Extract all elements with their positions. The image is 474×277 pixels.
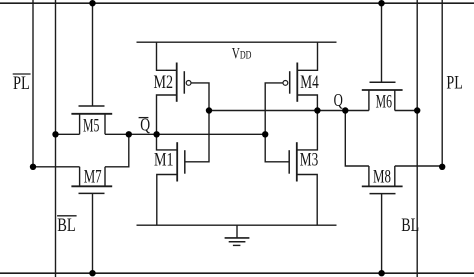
svg-text:M4: M4 [300, 71, 318, 93]
wire left inverter gate (M2 bubble to M1 gate) [185, 83, 209, 162]
wire WL (top word line) [0, 2, 474, 4]
transistor M5 gate bar [79, 105, 105, 107]
svg-text:VDD: VDD [232, 45, 252, 62]
transistor M4 channel bar [296, 63, 298, 102]
transistor M4 drain lead down to Q and M3 drain [297, 95, 318, 150]
overbar of BL-bar label [57, 215, 77, 217]
transistor M1 channel bar [176, 142, 178, 181]
transistor M3 source lead to ground [297, 175, 317, 226]
transistor M2 drain lead down to Q-bar and M1 drain [157, 95, 178, 150]
svg-text:M1: M1 [154, 148, 174, 170]
transistor M8 channel bar [362, 185, 403, 187]
junction dot M7 riser/Q-bar wire [126, 131, 132, 137]
wire Q-bar node (left segment from BL-bar to M5) [56, 133, 80, 135]
node PL line (right plate line) [441, 0, 443, 167]
junction dot M3-M4 drains/Q wire [314, 107, 320, 113]
transistor M6 gate lead [381, 3, 383, 82]
transistor M2 gate bubble [186, 81, 191, 86]
transistor M5 gate lead [92, 3, 94, 106]
node BL-bar line (left bit line) [55, 0, 57, 277]
transistor M6 gate bar [370, 81, 396, 83]
wire bottom control line [0, 272, 474, 274]
svg-text:BL: BL [57, 214, 75, 235]
junction dot right gates/Q-bar wire [262, 131, 268, 137]
transistor M4 gate bar [289, 71, 291, 94]
transistor M6 channel bar [362, 89, 403, 91]
ground symbol stem [236, 225, 238, 238]
transistor M8 left stub [368, 166, 370, 186]
transistor M7 channel bar [71, 185, 112, 187]
transistor M1 source lead to ground [157, 175, 177, 226]
junction dot bottom line/M7 gate [89, 270, 95, 276]
transistor M7 left wire to PL-bar [33, 166, 80, 168]
node BL line (right bit line) [416, 0, 418, 277]
overbar of Q-bar label [139, 117, 149, 119]
svg-text:Q: Q [140, 116, 150, 135]
transistor M4 source lead from VDD [297, 42, 317, 70]
transistor M2 source lead from VDD [157, 42, 177, 70]
transistor M8 left wire riser to Q [345, 111, 369, 167]
transistor M1 gate bar [184, 150, 186, 174]
transistor M8 right stub [394, 166, 396, 186]
transistor M7 gate bar [79, 192, 105, 194]
transistor M3 channel bar [296, 142, 298, 181]
transistor M8 right wire to PL [395, 165, 442, 167]
ground symbol bar 1 [225, 237, 250, 239]
wire Q-bar node (M5 to right gates) [105, 133, 265, 135]
svg-text:M8: M8 [373, 166, 391, 187]
svg-text:M5: M5 [83, 116, 99, 136]
transistor M7 gate lead [92, 193, 94, 273]
svg-text:PL: PL [13, 72, 30, 93]
transistor M5 channel bar [71, 113, 112, 115]
svg-text:PL: PL [446, 71, 462, 93]
overbar of PL-bar label [13, 73, 31, 75]
svg-text:M7: M7 [84, 166, 102, 187]
wire ground rail [137, 224, 337, 226]
node PL-bar line (left plate line) [32, 0, 34, 167]
ground symbol bar 3 [233, 244, 241, 246]
junction dot BL/Q wire [414, 107, 420, 113]
transistor M5 drain stub [104, 114, 106, 135]
transistor M8 gate lead [381, 194, 383, 274]
svg-text:BL: BL [401, 214, 419, 236]
transistor M8 gate bar [370, 193, 396, 195]
junction dot PL-bar end/M7 wire [30, 164, 36, 170]
junction dot PL end/M8 wire [439, 164, 445, 170]
junction dot left gates/Q wire [206, 107, 212, 113]
wire VDD rail [137, 41, 337, 43]
junction dot bottom line/M8 gate [378, 270, 384, 276]
junction dot WL/M5 gate [89, 0, 95, 6]
wire Q node (left gates to M6) [209, 110, 369, 112]
junction dot M8 riser/Q wire [342, 107, 348, 113]
wire right inverter gate (M4 bubble to M3 gate) [265, 83, 289, 162]
transistor M7 source stub [79, 167, 81, 187]
svg-text:M6: M6 [376, 92, 392, 112]
transistor M3 gate bar [288, 150, 290, 174]
transistor M2 gate bar [183, 71, 185, 94]
transistor M2 channel bar [176, 63, 178, 102]
transistor M7 right wire [105, 134, 129, 167]
ground symbol bar 2 [229, 241, 246, 243]
transistor M6 left stub [368, 90, 370, 111]
transistor M7 drain stub [104, 167, 106, 187]
svg-text:M3: M3 [300, 148, 318, 170]
junction dot BL-bar/Q-bar wire [52, 131, 58, 137]
transistor M5 source stub [79, 114, 81, 135]
transistor M6 right stub [394, 90, 396, 111]
wire Q node (M6 to BL) [395, 110, 417, 112]
transistor M4 gate bubble [283, 81, 288, 86]
svg-text:Q: Q [334, 91, 343, 110]
junction dot WL/M6 gate [378, 0, 384, 6]
junction dot M1-M2 drains/Q-bar wire [153, 131, 159, 137]
svg-text:M2: M2 [154, 71, 174, 93]
